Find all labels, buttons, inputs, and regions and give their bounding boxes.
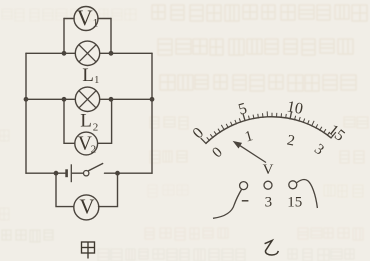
junction node right rail L2 [150,97,155,102]
hanzi yi (乙) caption [265,240,279,255]
wire: battery row left [26,172,65,174]
lead wire left [213,190,242,219]
wire: battery to switch [72,172,83,174]
svg-text:2: 2 [91,143,97,155]
terminal minus [240,182,248,190]
battery cell: long thin plate [70,164,72,182]
wire: V2 right drop [98,99,112,143]
svg-text:10: 10 [285,98,304,118]
needle [234,142,266,163]
wire: V bottom right branch [99,173,118,206]
svg-text:V: V [263,162,274,178]
voltmeter V bottom [74,195,99,220]
voltmeter V1 [74,7,98,31]
wire: L2 row left [26,98,75,100]
wire: V1 row right segment [98,18,111,20]
svg-text:15: 15 [287,195,302,211]
svg-text:1: 1 [243,128,255,145]
svg-text:5: 5 [237,100,249,119]
svg-text:0: 0 [190,124,208,142]
svg-text:V: V [77,5,93,30]
wire: right rail [151,53,153,173]
wire: switch to right [105,172,153,174]
wire: left rail [25,53,27,173]
junction node L1 right [109,51,114,56]
svg-text:V: V [79,195,94,219]
wire: L1 row left [26,52,75,54]
battery cell: short thick plate [65,169,68,177]
svg-text:2: 2 [286,132,296,149]
svg-text:2: 2 [93,122,99,134]
svg-text:0: 0 [209,144,225,161]
switch S pivot [84,171,89,176]
svg-text:L: L [82,65,94,86]
junction node L1 left [62,51,67,56]
hanzi jia (甲) caption [82,242,95,259]
wire: V bottom left branch [56,173,74,206]
junction node L2 left [62,97,67,102]
wire: L2 row right [100,98,152,100]
terminal 15 [289,181,297,189]
svg-text:1: 1 [94,75,99,86]
terminal label minus [242,200,249,202]
wire: V1 row left segment [64,18,74,20]
svg-text:3: 3 [265,195,273,211]
wire: L1 row right [100,52,152,54]
junction node battery row left [54,171,59,176]
wire: V1 right drop to L1 row [110,19,112,54]
voltmeter V2 [75,132,98,155]
wire: V1 left drop to L1 row [63,19,65,54]
svg-text:L: L [80,111,92,132]
junction node L2 right [109,97,114,102]
switch blade [88,163,103,171]
terminal 3 [264,181,272,189]
junction node left rail L2 [24,97,29,102]
lamp L1 [75,41,99,65]
svg-text:3: 3 [311,141,327,158]
lamp L2 [75,87,99,111]
meter scale arc [201,111,336,144]
wire: V2 left drop [64,99,75,143]
svg-text:1: 1 [93,18,99,30]
junction node battery row right [115,171,120,176]
lead wire right [297,180,318,208]
